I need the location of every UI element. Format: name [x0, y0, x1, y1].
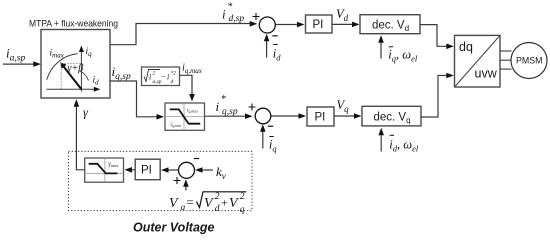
svg-text:iq,max: iq,max	[187, 108, 198, 115]
wire PI3 to limiter	[132, 169, 135, 171]
summing junction sum1	[259, 17, 275, 33]
motor PMSM	[511, 43, 547, 79]
wire limiter output to gamma input of MTPA	[76, 106, 84, 170]
svg-text:dec. Vq: dec. Vq	[374, 111, 411, 125]
summing junction sum2	[255, 108, 271, 124]
sum1 plus sign	[253, 13, 260, 20]
svg-text:i: i	[167, 73, 169, 82]
block saturation limiter i_q	[165, 103, 205, 130]
svg-text:2: 2	[240, 192, 245, 202]
svg-text:d: d	[215, 204, 220, 214]
feedback arrow i_d into sum1	[266, 40, 268, 58]
svg-text:d,sp: d,sp	[229, 14, 245, 24]
sum3 plus sign	[174, 177, 181, 184]
svg-text:dq: dq	[459, 40, 473, 54]
svg-text:iq,min: iq,min	[170, 122, 181, 129]
label i_d bar	[273, 44, 278, 46]
svg-text:PMSM: PMSM	[516, 56, 542, 66]
wire i*_d,sp from MTPA to sum1	[110, 24, 250, 45]
block gamma limiter	[85, 158, 124, 182]
svg-text:V: V	[204, 196, 214, 211]
block dec. V_d	[360, 15, 420, 34]
MTPA dashed projection lines	[61, 63, 81, 89]
wire PI2 to dec.Vq	[334, 115, 355, 117]
MTPA current-limit arc	[47, 54, 78, 80]
svg-text:uvw: uvw	[475, 67, 498, 81]
svg-text:2: 2	[153, 71, 156, 77]
MTPA current vector	[63, 66, 81, 89]
svg-text:+: +	[220, 196, 228, 210]
sum1 minus sign	[272, 35, 277, 37]
svg-text:MTPA + flux-weakening: MTPA + flux-weakening	[29, 18, 118, 29]
block dec. V_q	[362, 106, 421, 126]
svg-text:i: i	[216, 99, 220, 114]
feedback arrow under dec.Vq	[380, 134, 382, 152]
wire PI1 to dec.Vd	[332, 23, 353, 25]
label i_q bar	[269, 136, 274, 138]
svg-text:q: q	[240, 205, 245, 215]
svg-text:q,sp: q,sp	[222, 107, 238, 117]
block PI3	[135, 159, 160, 180]
label i_q, w_el	[389, 46, 393, 48]
wire dec.Vd to dq	[420, 25, 447, 47]
feedback arrow i_q into sum2	[262, 130, 264, 149]
sum2 minus sign	[268, 125, 273, 127]
svg-text:*2: *2	[171, 71, 177, 77]
svg-text:V: V	[169, 196, 179, 211]
svg-text:−: −	[161, 72, 166, 81]
svg-text:V: V	[229, 196, 239, 211]
wire sqrt to saturation top	[180, 75, 193, 94]
wire sum1 to PI1	[276, 24, 298, 26]
wire i_q,sp to saturation	[110, 81, 157, 117]
sum2 plus sign	[249, 104, 256, 111]
svg-text:PI: PI	[313, 19, 324, 31]
wire input i_a,sp	[3, 63, 34, 65]
svg-text:Outer Voltage: Outer Voltage	[133, 221, 215, 235]
formula V_a = sqrt(Vd^2+Vq^2)	[169, 192, 246, 215]
svg-text:=: =	[186, 195, 195, 210]
dotted box Outer Voltage	[69, 151, 253, 210]
label i_d, w_el	[390, 134, 394, 136]
block PI1	[306, 15, 333, 33]
svg-text:γ+β: γ+β	[68, 63, 84, 74]
wire sum3 to PI3	[169, 169, 179, 171]
svg-text:i: i	[149, 73, 151, 82]
block MTPA + flux-weakening	[29, 18, 118, 99]
MTPA angle arc	[79, 71, 89, 81]
block PI2	[307, 107, 334, 126]
arrow V_a into sum3	[185, 185, 187, 191]
wire k_v to sum3	[203, 169, 214, 171]
MTPA inner axes	[46, 49, 97, 92]
svg-text:dec. Vd: dec. Vd	[372, 19, 409, 33]
wires dq to PMSM (3 phases)	[500, 51, 512, 69]
sum3 minus sign	[194, 158, 199, 160]
feedback arrow under dec.Vd	[380, 41, 382, 59]
wire saturation to sum2	[205, 115, 246, 117]
svg-text:PI: PI	[315, 112, 326, 124]
block sqrt(i_a,sp^2 - i_d*^2)	[142, 67, 180, 86]
wire dec.Vq to dq	[421, 76, 447, 118]
svg-text:PI: PI	[141, 165, 152, 177]
svg-text:*: *	[227, 2, 232, 13]
svg-text:d: d	[171, 79, 174, 85]
svg-text:*: *	[221, 94, 226, 105]
svg-text:2: 2	[215, 192, 220, 202]
svg-text:i: i	[222, 7, 226, 22]
wire sum2 to PI2	[271, 115, 299, 117]
block dq/uvw transform	[455, 35, 501, 87]
summing junction sum3	[179, 162, 195, 178]
